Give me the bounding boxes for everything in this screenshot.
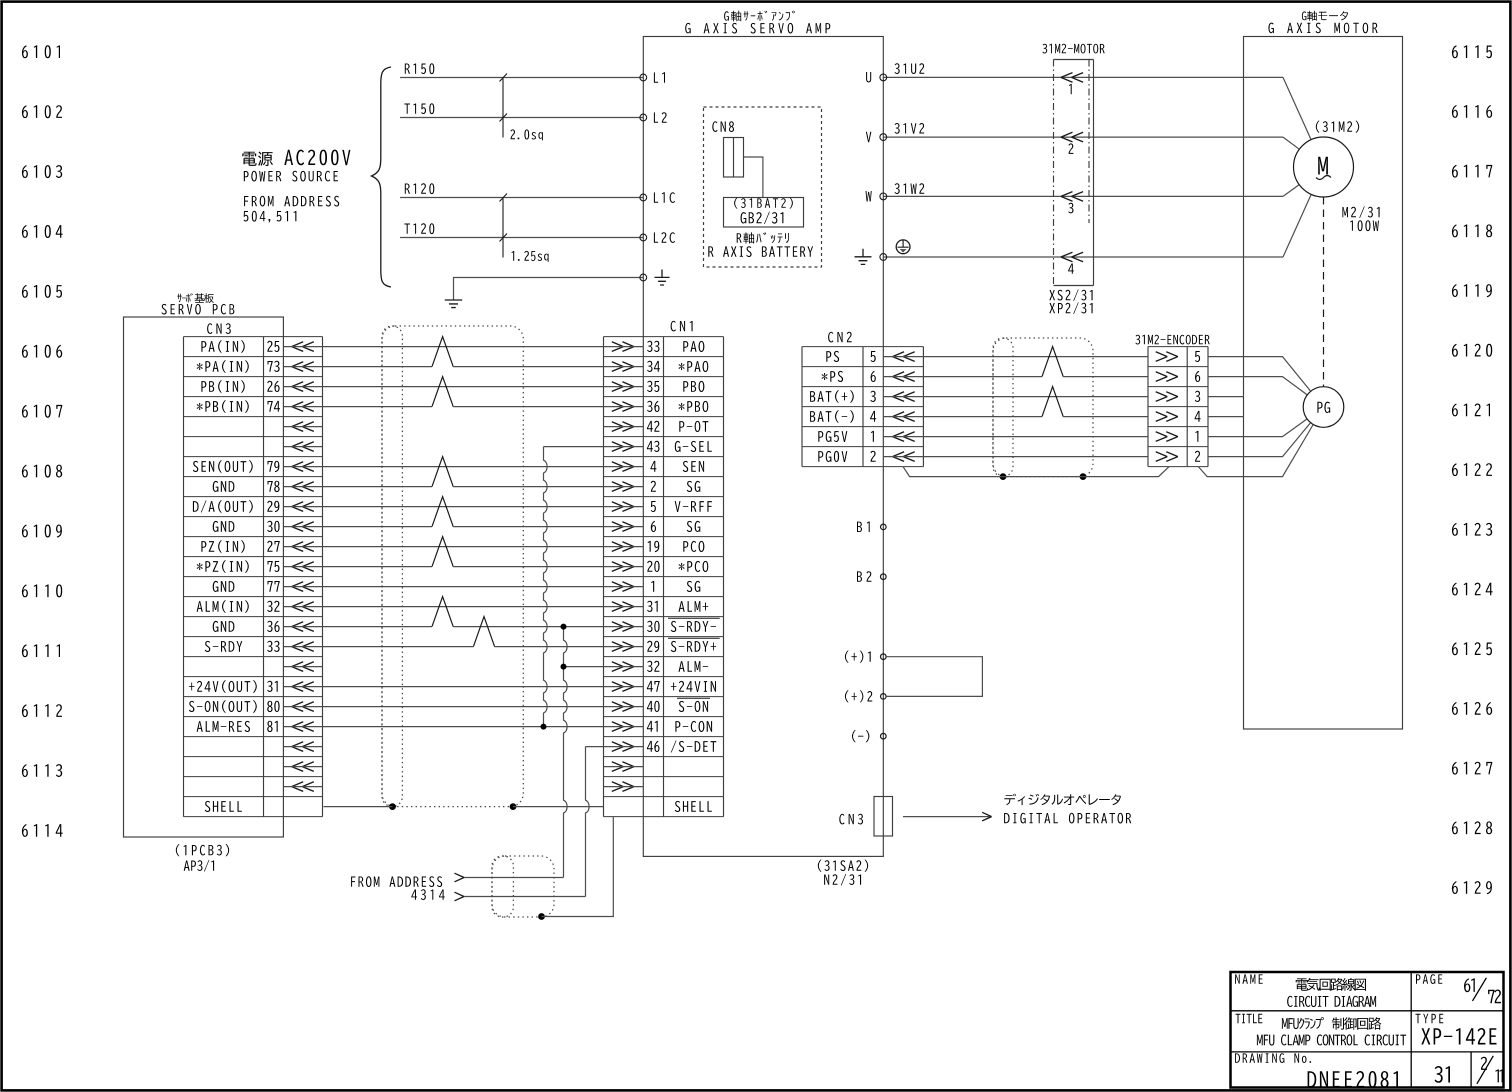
arrow FROM ADDRESS line 1 [455,873,465,882]
title block TYPE XP-142E [1416,1014,1444,1023]
encoder pin 4 [1156,412,1178,422]
shield junction dots [389,803,396,810]
CN3 row 0 input arrows [292,342,314,352]
wire CN3 to CN1 row 14 (twisted pair) [283,626,432,628]
left margin line numbers 6101-6114 [22,45,63,837]
CN1 row 8 output arrows [612,502,634,512]
encoder pin 5 [1156,352,1178,362]
CN1 row 11 output arrows [612,562,634,572]
stub wire CN1 row 22 [604,786,644,788]
wire ground to earth terminal [454,278,644,301]
wire earth into motor [1283,194,1311,257]
pin 1 31M2-MOTOR [1061,73,1083,83]
CN1 row 15 output arrows [612,642,634,652]
wire /S-DET from bus C [586,746,644,748]
wire encoder 2 to PG [1208,423,1311,457]
CN3 row 9 input arrows [292,522,314,532]
CN1 pin 20 *PCO [647,561,659,572]
title block NAME circuit diagram [1235,974,1263,984]
label power source (Japanese) AC200V [242,152,273,167]
twisted pair mark PB [432,377,453,407]
CN3 row 14 input arrows [292,622,314,632]
label servo pcb (Japanese) [177,293,214,303]
encoder pin 2 [1156,452,1178,462]
wire CN3 to CN1 row 19 [283,726,643,728]
terminal U wire 31U2 [883,76,1283,78]
connector 31M2-ENCODER table [1135,335,1209,467]
twisted pair mark BAT [1042,387,1063,417]
title block sheet 31 [1435,1066,1450,1083]
title block PAGE 61/72 [1416,974,1442,984]
title block sheet 2/11 [1481,1057,1487,1070]
wire encoder 1 to PG [1208,419,1307,437]
label R axis battery (Japanese) [737,232,789,243]
CN3 row 2 input arrows [292,382,314,392]
label FROM ADDRESS 504,511 [244,196,339,207]
CN1 row 1 output arrows [612,362,634,372]
terminal (+)2 [881,694,887,700]
twisted pair mark S-RDY [473,617,494,647]
CN1 pin 33 PAO [647,341,659,352]
connector CN8 [712,121,734,132]
wire CN3 to CN1 row 6 [283,466,643,468]
twisted pair mark ALM [432,597,453,627]
CN1 pin 34 *PAO [647,361,660,372]
CN3 row 10 input arrows [292,542,314,552]
CN3 row 13 input arrows [292,602,314,612]
CN3 signal SEN(OUT) pin 79 [193,460,253,473]
wire T150 to L2 [400,117,643,119]
CN3 row 8 input arrows [292,502,314,512]
label R AXIS BATTERY [708,246,813,257]
wire PG0V [883,456,1148,458]
wire CN3 to CN1 row 7 (twisted pair) [283,486,432,488]
shield drain wire CN2 side [903,467,1169,477]
wire G-SEL from bus A [544,446,644,448]
CN3 signal ALM-RES pin 81 [197,721,250,732]
CN2 signal PG5V pin 1 [818,431,847,442]
label SERVO PCB [162,304,235,315]
CN1 pin 40 S-ON [647,701,660,712]
bus wire C /S-DET to FROM ADDRESS 4314 [586,747,590,897]
arrow to digital operator [903,816,991,818]
connector CN3 digital operator [839,814,863,825]
servo amplifier box G AXIS SERVO AMP [643,37,883,857]
CN3 signal PB(IN) pin 26 [201,380,244,393]
wire CN3 to CN1 row 12 [283,586,643,588]
junction dot B at ALM- [561,664,567,670]
CN3 signal PZ(IN) pin 27 [201,540,244,553]
wire R120 to L1C [400,197,643,199]
CN1 row 17 output arrows [612,682,634,692]
CN3 signal GND pin 77 [213,581,235,592]
CN3 row 22 input arrows [292,782,314,792]
CN1 pin 30 S-RDY- [647,621,660,632]
CN3 signal S-ON(OUT) pin 80 [189,700,257,713]
wire ALM- from bus B [564,666,644,668]
title block [1231,972,1504,1088]
CN3 row 19 input arrows [292,722,314,732]
pin 2 31M2-MOTOR [1061,132,1083,142]
encoder pin 6 [1156,372,1178,382]
label G AXIS SERVO AMP [685,23,830,34]
CN1 row 9 output arrows [612,522,634,532]
connector 31M2-MOTOR XS2/31 XP2/31 [1042,44,1104,54]
CN2 signal PG0V pin 2 [818,451,847,462]
cable shield dotted (CN3-CN1) [382,326,523,807]
motor M (31M2) M2/31 100W [1294,137,1354,197]
CN1 pin 35 PBO [647,381,659,392]
CN3 signal PA(IN) pin 25 [201,340,244,353]
CN3 row 5 input arrows [292,442,314,452]
dashed shaft motor to encoder [1323,197,1325,387]
wire PS [883,356,1148,358]
CN1 row 2 output arrows [612,382,634,392]
CN1 pin 46 /S-DET [647,741,660,752]
twisted pair mark D/A [432,497,453,527]
bus wire B S-RDY- ALM- to FROM ADDRESS [564,627,568,878]
CN1 pin 6 SG [651,521,656,532]
CN1 pin 43 G-SEL [647,441,660,452]
connector CN2 table [802,332,923,467]
CN1 row 10 output arrows [612,542,634,552]
terminal L2C [640,234,647,241]
CN1 row 16 output arrows [612,662,634,672]
jumper wire (+)1 to (+)2 [886,657,982,697]
CN1 pin 36 *PBO [647,401,659,412]
CN3 row 21 input arrows [292,762,314,772]
shield junction dot from-address cable [538,913,545,920]
CN2 signal BAT(-) pin 4 [810,410,854,423]
cable shield dotted (from address) [492,856,554,917]
wire CN3 to CN1 row 11 (twisted pair) [283,566,432,568]
CN1 row 4 output arrows [612,422,634,432]
CN3 signal *PZ(IN) pin 75 [197,560,249,573]
twisted pair mark PA [432,337,453,367]
wire CN3 to CN1 row 1 (twisted pair) [283,366,432,368]
terminal B1 [881,524,887,530]
CN1 row 5 output arrows [612,442,634,452]
cable size mark 1.25sq [502,198,504,258]
CN3 row 3 input arrows [292,402,314,412]
CN2 signal BAT(+) pin 3 [810,390,854,403]
wire CN3 to CN1 row 18 [283,706,643,708]
wire FROM ADDRESS line 2 [464,896,586,898]
motor box G AXIS MOTOR [1244,37,1403,730]
CN2 signal PS pin 5 [826,351,839,362]
cable shield dotted (CN2-encoder) [993,338,1093,477]
wire V into motor [1283,137,1299,149]
label FROM ADDRESS 4314 [351,876,442,887]
CN3 row 18 input arrows [292,702,314,712]
servo PCB box [124,317,284,837]
wire encoder 5 to PG [1208,357,1311,392]
label G AXIS MOTOR [1268,23,1377,34]
label G axis motor (Japanese) [1302,11,1348,21]
CN1 row 19 output arrows [612,722,634,732]
shield drain wire to PG [1198,425,1313,477]
CN1 SHELL [675,801,712,812]
label AP3/1 [184,860,214,872]
wire T120 to L2C [400,237,643,239]
terminal V wire 31V2 [883,136,1283,138]
label G axis servo amp (Japanese) [724,11,795,22]
terminal L1C [640,194,647,201]
connector CN1 table on servo amp [604,321,724,817]
CN1 row 18 output arrows [612,702,634,712]
wire CN3 to CN1 row 8 [283,506,643,508]
wire PG5V [883,436,1148,438]
CN3 signal D/A(OUT) pin 29 [193,500,253,513]
CN1 pin 4 SEN [650,461,656,472]
CN3 row 6 input arrows [292,462,314,472]
wire SHELL CN3 side [324,806,393,808]
CN1 pin 5 V-RFF [651,501,656,512]
CN3 row 20 input arrows [292,742,314,752]
label (1PCB3) [176,844,229,856]
CN1 pin 29 S-RDY+ [647,641,659,652]
CN3 signal S-RDY pin 33 [205,641,243,652]
wire shield to CN1 SHELL [542,817,614,917]
terminal B2 [881,574,887,580]
CN1 pin 42 P-OT [647,421,660,432]
CN1 row 6 output arrows [612,462,634,472]
wire R150 to L1 [400,77,643,79]
CN1 row 13 output arrows [612,602,634,612]
CN3 signal *PB(IN) pin 74 [197,400,249,413]
battery GB2/31 (31BAT2) [724,198,804,228]
wire U into motor [1283,77,1311,139]
CN3 row 1 input arrows [292,362,314,372]
title block DRAWING No. DNEE2081 [1235,1053,1311,1063]
right margin line numbers 6115-6129 [1452,45,1493,894]
label DIGITAL OPERATOR [1004,813,1131,824]
CN3 signal +24V(OUT) pin 31 [189,680,257,693]
CN3 row 11 input arrows [292,562,314,572]
CN3 row 17 input arrows [292,682,314,692]
CN1 row 3 output arrows [612,402,634,412]
CN3 signal ALM(IN) pin 32 [197,600,249,613]
CN1 pin 31 ALM+ [647,601,658,612]
pin 4 31M2-MOTOR [1061,252,1083,262]
terminal (+)1 with jumper [881,654,887,660]
wire SHELL CN1 side [513,806,604,808]
twisted pair mark PZ [432,537,453,567]
wire CN3 to CN1 row 9 (twisted pair) [283,526,432,528]
brace power source group [372,67,392,287]
title block TITLE MFU clamp control circuit [1236,1014,1263,1023]
CN3 row 16 input arrows [292,662,314,672]
bus wire A G-SEL to P-CON [544,447,548,727]
label (31SA2) N2/31 [818,860,868,872]
CN3 row 7 input arrows [292,482,314,492]
junction dot A at P-CON [541,724,547,730]
CN3 signal GND pin 36 [213,621,235,632]
twisted pair mark SEN [432,457,453,487]
terminal L1 [640,74,647,81]
CN1 row 12 output arrows [612,582,634,592]
wire encoder 3 [1208,396,1244,398]
arrow FROM ADDRESS line 2 [455,892,465,901]
wire CN3 to CN1 row 17 [283,686,643,688]
dashed box R axis battery option [704,107,822,267]
CN1 row 21 output arrows [612,762,634,772]
CN1 row 22 output arrows [612,782,634,792]
wire BAT(-) (twisted) [883,416,1042,418]
pin 3 31M2-MOTOR [1061,192,1083,202]
CN3 row 12 input arrows [292,582,314,592]
terminal (-) [881,733,887,739]
CN1 row 14 output arrows [612,622,634,632]
CN3 SHELL [205,801,242,812]
CN1 row 7 output arrows [612,482,634,492]
CN1 pin 1 SG [651,581,654,592]
wire CN3 to CN1 row 10 [283,546,643,548]
label digital operator (Japanese) [1004,794,1121,806]
CN3 signal GND pin 78 [213,481,235,492]
label POWER SOURCE [244,171,338,182]
CN1 row 20 output arrows [612,742,634,752]
stub wire CN1 row 21 [604,766,644,768]
wire *PS (twisted) [883,376,1042,378]
wire CN3 to CN1 row 2 [283,386,643,388]
wire BAT(+) [883,396,1148,398]
terminal earth output with PE symbol [883,256,1283,258]
terminal W wire 31W2 [883,195,1283,197]
junction dot B at S-RDY- [561,624,567,630]
CN1 pin 32 ALM- [647,661,659,672]
wire W into motor [1283,185,1299,197]
encoder pin 3 [1156,392,1178,402]
terminal L2 [640,114,647,121]
wire CN3 to CN1 row 0 [283,346,643,348]
twisted pair mark PS [1042,347,1063,377]
CN1 pin 41 P-CON [647,721,658,732]
wire CN3 to CN1 row 13 [283,606,643,608]
connector CN3 table on servo PCB [184,323,323,816]
cable size mark 2.0sq [502,78,504,138]
stub wire CN1 P-OT [604,426,644,428]
shield junction dots encoder cable [1000,473,1007,480]
CN3 row 4 input arrows [292,422,314,432]
CN3 signal *PA(IN) pin 73 [197,360,249,373]
CN1 pin 19 PCO [648,541,660,552]
wire encoder 4 [1208,416,1244,418]
wire CN3 to CN1 row 3 (twisted pair) [283,406,432,408]
wire FROM ADDRESS line 1 [464,877,564,879]
protective earth symbol circled [896,240,910,254]
wire CN3 to CN1 row 15 (twisted pair) [283,646,473,648]
ground symbol power input [445,300,463,308]
encoder pin 1 [1156,432,1178,442]
CN1 pin 2 SG [651,481,656,492]
CN3 signal GND pin 30 [213,521,235,532]
wire CN8 to battery [744,157,763,198]
CN1 pin 47 +24VIN [647,681,660,692]
CN2 signal *PS pin 6 [822,371,844,382]
encoder PG circle [1303,387,1344,428]
CN3 row 15 input arrows [292,642,314,652]
wire encoder 6 to PG [1208,377,1307,395]
CN1 row 0 output arrows [612,342,634,352]
terminal earth with ground symbol [640,274,647,281]
